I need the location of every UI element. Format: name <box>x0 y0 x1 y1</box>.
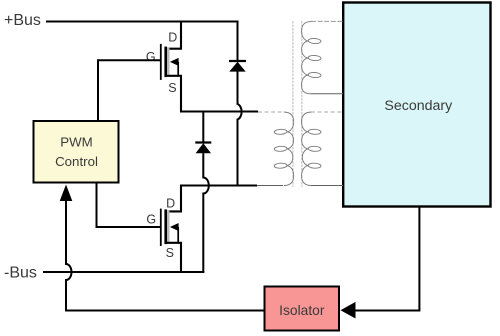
wire secondary lower top lead (dashed thin) <box>311 111 343 113</box>
PWM Control box U1 <box>34 121 119 183</box>
wire D1 anode down with hop over node-B line <box>238 72 242 185</box>
transistor Q2 (lower MOSFET) <box>161 209 179 246</box>
svg-text:G: G <box>146 50 156 64</box>
svg-text:Control: Control <box>55 154 98 169</box>
wire +Bus corner down to diode D1 <box>237 21 239 61</box>
Secondary box <box>343 3 490 207</box>
svg-text:S: S <box>168 81 176 95</box>
wire feedback vertical with hop over -Bus, arrow into PWM <box>66 200 72 311</box>
wire +Bus rail <box>46 21 237 23</box>
wire secondary lower bottom lead (thin) <box>311 185 343 187</box>
arrowhead into PWM Control <box>60 185 73 202</box>
diode D2 (clamp, cathode up) <box>195 143 211 154</box>
transistor Q1 (upper MOSFET) <box>161 44 179 80</box>
svg-text:G: G <box>146 212 156 226</box>
wire secondary upper top lead (dashed thin) <box>311 20 343 22</box>
wire primary top lead (dashed thin) <box>258 111 283 113</box>
wire upper FET drain lead <box>166 21 181 49</box>
wire node A horizontal (upper source to primary top) <box>180 111 258 113</box>
transformer core <box>293 21 302 187</box>
diode D1 (clamp, cathode up) <box>229 61 246 72</box>
wire diode D2 branch from node A <box>202 111 204 143</box>
wire lower FET source lead to -Bus <box>166 243 181 273</box>
svg-text:D: D <box>168 30 177 44</box>
wire lower gate lead from PWM <box>97 183 161 228</box>
wire feedback bottom run to Isolator <box>65 310 264 312</box>
svg-text:-Bus: -Bus <box>4 265 37 282</box>
wire primary bottom lead (thin) <box>257 185 283 187</box>
svg-text:PWM: PWM <box>60 135 93 150</box>
wire secondary upper bottom lead (thin) <box>311 93 343 95</box>
wire -Bus rail <box>43 271 204 273</box>
wire upper gate lead from PWM <box>98 60 160 121</box>
wire upper FET source lead to node A <box>166 76 181 112</box>
wire Secondary output down to Isolator <box>356 206 420 311</box>
arrowhead into Isolator <box>341 302 356 319</box>
inductor primary winding <box>274 112 294 186</box>
inductor secondary upper winding <box>302 21 322 93</box>
svg-text:+Bus: +Bus <box>4 12 41 29</box>
wire D2 anode down with hop over node-B line to -Bus <box>203 153 209 272</box>
wire lower FET drain lead from node B <box>166 185 181 212</box>
svg-text:Isolator: Isolator <box>279 303 325 318</box>
svg-text:D: D <box>166 196 175 210</box>
Isolator box <box>265 287 340 331</box>
svg-text:S: S <box>166 246 174 260</box>
svg-text:Secondary: Secondary <box>384 98 453 114</box>
inductor secondary lower winding <box>302 112 322 186</box>
wire node B horizontal (lower drain to primary bottom) <box>180 185 257 187</box>
